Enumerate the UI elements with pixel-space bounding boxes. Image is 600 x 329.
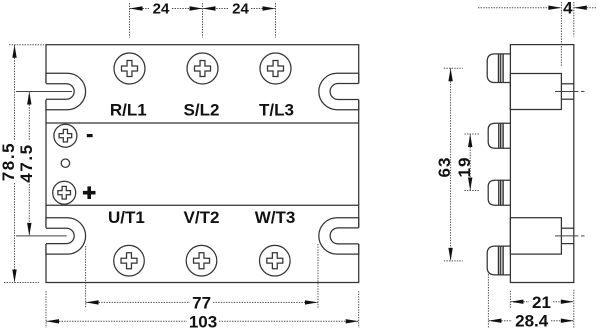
svg-text:V/T2: V/T2 — [184, 208, 220, 227]
svg-text:63: 63 — [435, 157, 454, 178]
svg-text:T/L3: T/L3 — [259, 101, 294, 120]
svg-text:W/T3: W/T3 — [255, 208, 296, 227]
svg-text:19: 19 — [455, 157, 474, 178]
svg-text:47.5: 47.5 — [17, 143, 36, 183]
svg-text:24: 24 — [232, 0, 249, 17]
svg-text:28.4: 28.4 — [515, 312, 549, 329]
svg-text:77: 77 — [192, 294, 211, 313]
svg-text:103: 103 — [189, 313, 217, 329]
svg-text:24: 24 — [153, 0, 170, 17]
svg-text:78.5: 78.5 — [0, 142, 18, 182]
svg-text:4: 4 — [563, 0, 573, 18]
svg-text:S/L2: S/L2 — [184, 101, 220, 120]
svg-text:R/L1: R/L1 — [110, 101, 147, 120]
svg-text:U/T1: U/T1 — [108, 208, 145, 227]
svg-text:21: 21 — [532, 293, 551, 312]
